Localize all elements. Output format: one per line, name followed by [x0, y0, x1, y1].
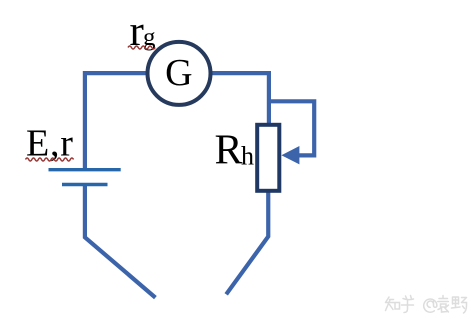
wire below rheostat to open switch (right lead) [226, 190, 268, 294]
wire below battery to open switch (left lead) [85, 184, 155, 297]
spellcheck squiggle under rg [128, 46, 155, 49]
spellcheck squiggle under E,r [26, 158, 74, 161]
svg-text:G: G [165, 52, 192, 94]
rheostat Rh body [257, 125, 279, 191]
svg-text:R: R [215, 128, 243, 174]
wire branch to wiper arm [269, 101, 314, 155]
svg-text:h: h [241, 141, 254, 170]
watermark zhihu @yuanye (drawn strokes, very light gray) [386, 296, 467, 314]
wire top-left horizontal (battery to galvanometer) [85, 73, 150, 168]
battery E,r short plate [62, 183, 108, 186]
galvanometer U1 circle [148, 42, 211, 105]
wire top-right horizontal with corner down to rheostat [209, 73, 269, 125]
rheostat wiper arrowhead [281, 146, 299, 164]
battery E,r long plate [49, 168, 121, 171]
